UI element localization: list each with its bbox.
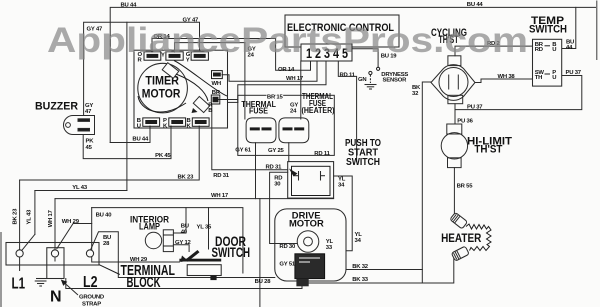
svg-text:RD 11: RD 11 xyxy=(314,151,330,157)
wire WH29 down and right to door switch xyxy=(92,208,180,262)
svg-text:RD 31: RD 31 xyxy=(266,165,283,171)
drive motor circle xyxy=(297,231,319,253)
svg-text:PU 37: PU 37 xyxy=(566,70,582,76)
door switch body xyxy=(187,265,221,276)
svg-text:STRAP: STRAP xyxy=(82,301,101,307)
svg-text:30: 30 xyxy=(274,181,281,187)
wire BU19 EC pin5 to dryness sensor xyxy=(352,49,378,67)
svg-text:PK: PK xyxy=(86,139,95,145)
svg-text:40: 40 xyxy=(181,229,188,235)
terminal L1 circle xyxy=(16,250,23,257)
svg-text:TH'ST: TH'ST xyxy=(474,144,502,156)
svg-text:(HEATER): (HEATER) xyxy=(302,106,335,115)
svg-text:MOTOR: MOTOR xyxy=(142,89,181,101)
wire RD2 cycling to temp switch xyxy=(455,46,533,56)
svg-text:LAMP: LAMP xyxy=(139,222,160,232)
ground strap arrow xyxy=(64,283,78,296)
timer terminal PK bottom xyxy=(169,118,186,126)
hi-limit thermostat xyxy=(441,124,467,168)
thermal fuse enclosure box xyxy=(238,95,334,155)
wire GY12 lamp to door lever xyxy=(173,245,189,252)
wire PU37 temp switch loop xyxy=(455,76,582,110)
terminal L2 circle xyxy=(86,250,93,257)
timer cam lower R/B xyxy=(193,96,209,112)
wire RD31 timer to push-to-start xyxy=(212,104,288,170)
wire GY47 buzzer to timer GY xyxy=(84,22,200,115)
wire H y84.7 to EC pin3 xyxy=(238,61,326,102)
wire WH17 vertical to N xyxy=(54,199,56,261)
terminal block pointer xyxy=(99,265,120,275)
wire BK23 vertical to L1 xyxy=(19,180,21,271)
dryness sensor xyxy=(377,67,380,70)
wire YL43 horizontal xyxy=(35,190,127,192)
svg-text:YL 43: YL 43 xyxy=(27,209,33,225)
svg-text:GY 12: GY 12 xyxy=(175,240,192,246)
svg-text:TH: TH xyxy=(535,75,542,81)
svg-text:44: 44 xyxy=(566,45,573,51)
wire BU28 from L2 xyxy=(91,232,275,278)
svg-text:HEATER: HEATER xyxy=(441,232,482,245)
svg-text:OR 14: OR 14 xyxy=(278,67,295,73)
wire BU40 top edge of lamp enclosure xyxy=(92,208,243,273)
svg-text:U: U xyxy=(137,124,141,130)
svg-text:34: 34 xyxy=(338,182,345,188)
door switch lever xyxy=(186,250,200,262)
svg-text:B: B xyxy=(208,108,212,114)
timer motor box xyxy=(134,50,228,128)
electronic control box xyxy=(285,15,399,47)
timer terminal BU bottom xyxy=(143,118,160,126)
svg-text:WH 17: WH 17 xyxy=(286,76,304,82)
wire GY24 into right fuse xyxy=(300,61,302,119)
svg-text:RD 11: RD 11 xyxy=(340,73,356,79)
timer terminal GY xyxy=(191,52,208,60)
svg-text:BU 44: BU 44 xyxy=(132,137,149,143)
timer terminal Y xyxy=(166,52,183,60)
svg-text:34: 34 xyxy=(355,238,362,244)
motor start switch block xyxy=(295,254,325,279)
svg-text:45: 45 xyxy=(86,145,93,151)
wire BK32 cycling to drive motor xyxy=(422,82,431,283)
EC pins box 1 2 3 4 5 xyxy=(301,44,352,61)
svg-text:47: 47 xyxy=(85,109,92,115)
wire Y24 timer Y to EC pin3 xyxy=(175,43,245,52)
svg-text:BLOCK: BLOCK xyxy=(127,275,161,291)
svg-text:BU 40: BU 40 xyxy=(96,213,113,219)
wire GY61 below left fuse xyxy=(255,143,257,199)
svg-text:32: 32 xyxy=(412,91,419,97)
svg-text:BK 23: BK 23 xyxy=(12,208,18,225)
timer WH terminal right xyxy=(212,71,223,79)
N box xyxy=(47,248,64,279)
svg-text:BK 32: BK 32 xyxy=(352,264,369,270)
terminal N circle xyxy=(51,250,58,257)
svg-text:BK 23: BK 23 xyxy=(178,174,195,180)
ground symbol at N xyxy=(35,279,47,287)
svg-text:L1: L1 xyxy=(12,275,26,292)
wire BU44 to timer BU terminal xyxy=(110,126,150,143)
svg-text:GN: GN xyxy=(358,77,366,83)
heater connector bottom xyxy=(451,246,469,261)
svg-text:SWITCH: SWITCH xyxy=(346,157,380,168)
svg-text:SWITCH: SWITCH xyxy=(212,245,251,260)
svg-text:MOTOR: MOTOR xyxy=(289,218,324,229)
svg-text:28: 28 xyxy=(103,241,110,247)
wire long vertical YL43 riser xyxy=(126,22,128,190)
wire ground strap run xyxy=(66,279,302,289)
wire YL34 from push-to-start to drive motor xyxy=(334,176,353,251)
wire timer right exit xyxy=(228,101,238,103)
push to start switch box xyxy=(288,162,334,199)
wire YL43 to L1 diagonal xyxy=(34,191,36,235)
svg-text:U: U xyxy=(552,75,556,81)
svg-text:GROUND: GROUND xyxy=(79,295,104,301)
door switch bar xyxy=(179,259,221,262)
thermal fuse right (heater) xyxy=(279,118,309,143)
thermal fuse left xyxy=(246,118,276,143)
svg-text:BU 44: BU 44 xyxy=(467,2,484,8)
buzzer xyxy=(64,116,95,135)
svg-text:L2: L2 xyxy=(83,274,98,291)
wire WH17 long horizontal xyxy=(55,198,334,200)
svg-text:YL 43: YL 43 xyxy=(72,185,88,191)
svg-text:GY 51: GY 51 xyxy=(279,261,296,267)
svg-text:RD 31: RD 31 xyxy=(213,173,230,179)
wire GY24 left vertical into left fuse xyxy=(244,43,246,119)
svg-text:N: N xyxy=(50,288,62,305)
switch contacts xyxy=(294,171,325,181)
ground xyxy=(365,85,377,90)
svg-text:WH 29: WH 29 xyxy=(62,219,80,225)
svg-text:33: 33 xyxy=(326,245,333,251)
svg-text:SWITCH: SWITCH xyxy=(529,23,567,35)
svg-text:PU 37: PU 37 xyxy=(467,105,483,111)
svg-text:FUSE: FUSE xyxy=(249,106,268,116)
wire BU44 top rail xyxy=(110,7,595,142)
svg-text:GY 25: GY 25 xyxy=(268,148,285,154)
svg-text:WH 29: WH 29 xyxy=(130,257,148,263)
timer cam upper xyxy=(162,63,179,79)
wire OR14 timer to EC pin1 xyxy=(152,39,311,71)
wire PU36 cycling to hi-limit xyxy=(454,104,456,124)
wire WH38 cycling to temp switch xyxy=(475,79,533,83)
scan edge left xyxy=(0,232,2,307)
svg-text:RD 30: RD 30 xyxy=(279,244,296,250)
svg-text:U: U xyxy=(552,47,556,53)
wire BK33 heater bottom xyxy=(309,259,454,284)
wire BU44 drop to temp switch xyxy=(562,7,576,48)
svg-text:BK 33: BK 33 xyxy=(352,277,369,283)
wire BU40 drop to lamp xyxy=(173,208,186,233)
wire enclosure vertical x260 xyxy=(259,199,261,307)
wire BK23 horizontal xyxy=(20,126,200,180)
svg-text:PK 45: PK 45 xyxy=(155,153,171,159)
timer motor circle xyxy=(138,63,188,113)
heater connector top xyxy=(450,212,468,229)
timer internal curves xyxy=(176,74,208,101)
drive motor box xyxy=(275,209,346,281)
svg-text:WH 38: WH 38 xyxy=(498,74,516,80)
svg-text:RD: RD xyxy=(535,47,543,53)
svg-text:WH 17: WH 17 xyxy=(211,193,229,199)
svg-text:GY: GY xyxy=(290,102,298,108)
svg-text:BU 28: BU 28 xyxy=(255,279,272,285)
wire BR15 stub xyxy=(219,99,238,101)
wire RD11 EC pin4 to push-to-start xyxy=(338,62,356,162)
switch actuator arrow xyxy=(289,169,298,177)
svg-text:BR 55: BR 55 xyxy=(457,184,474,190)
terminal block xyxy=(6,243,99,266)
svg-text:WH 17: WH 17 xyxy=(48,209,54,227)
heater zigzag xyxy=(466,224,491,251)
wire RD30 switch to motor xyxy=(270,172,298,243)
timer terminal OR xyxy=(144,52,161,60)
svg-text:24: 24 xyxy=(290,109,297,115)
svg-text:AppliancePartsPros.com: AppliancePartsPros.com xyxy=(47,20,528,60)
lamp bulb xyxy=(145,232,161,248)
wire GY25 below right fuse xyxy=(288,143,290,162)
svg-text:SENSOR: SENSOR xyxy=(383,78,408,84)
timer terminal BK bottom xyxy=(192,118,209,126)
scan edge right xyxy=(596,1,598,61)
svg-text:YL 35: YL 35 xyxy=(197,224,213,230)
wire WH29 from N diagonal xyxy=(57,224,92,249)
svg-text:GY 61: GY 61 xyxy=(235,148,252,154)
wire BR55 hi-limit to heater xyxy=(453,168,455,214)
svg-text:BU 44: BU 44 xyxy=(121,2,138,8)
wire WH17 EC pin2 xyxy=(222,61,317,81)
wire PK45 buzzer to timer PK xyxy=(83,126,171,159)
svg-text:BUZZER: BUZZER xyxy=(35,100,78,112)
svg-text:WH: WH xyxy=(212,81,221,87)
wire YL35 vertical xyxy=(208,208,210,249)
